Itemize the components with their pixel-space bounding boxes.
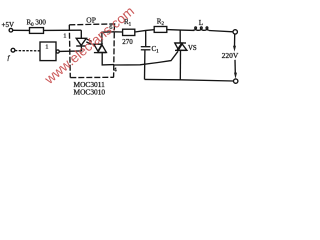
triac VS top lead (179, 30, 181, 43)
wire R0 to opto pin1 (44, 29, 82, 31)
wire R1 to node A (135, 30, 154, 32)
svg-text:1: 1 (63, 33, 66, 40)
wire input to gate (15, 50, 40, 52)
arrowhead upper (233, 46, 236, 52)
wire R2 to L (167, 29, 194, 32)
opto phototriac upper triangle (94, 44, 102, 51)
triac VS lower triangle (177, 43, 187, 50)
wire L to top terminal (209, 31, 233, 32)
capacitor C1 plates (141, 46, 151, 48)
wire +5V terminal to R0 (13, 29, 30, 31)
svg-text:+5V: +5V (2, 21, 15, 29)
svg-text:MOC3010: MOC3010 (74, 88, 106, 97)
triac VS top bar (175, 42, 186, 44)
LED cathode bar (76, 45, 86, 47)
arrowhead lower (234, 73, 237, 79)
bottom rail (145, 79, 234, 81)
terminal bottom right (234, 79, 238, 83)
triac VS bottom lead (179, 50, 181, 79)
resistor R0 (30, 28, 44, 34)
LED emission arrow 1 (87, 39, 91, 41)
opto triac bottom bar (94, 52, 107, 54)
terminal top right (233, 30, 237, 34)
inductor L (193, 27, 209, 31)
optocoupler OP dashed box (69, 24, 117, 78)
gate output bubble (56, 50, 59, 53)
capacitor C1 lead top (145, 30, 147, 46)
svg-text:220V: 220V (222, 51, 239, 60)
svg-text:OP: OP (86, 16, 96, 25)
LED D triangle (76, 38, 86, 45)
terminal input (11, 48, 15, 52)
resistor R1 (123, 29, 135, 35)
opto phototriac lower triangle (98, 45, 107, 53)
terminal +5V (9, 28, 13, 32)
svg-text:270: 270 (122, 38, 133, 46)
opto pin4 lead (102, 53, 114, 65)
wire pin6 to R1 (114, 31, 122, 33)
triac VS upper triangle (175, 43, 183, 50)
triac gate wire (114, 51, 178, 65)
220V arrow line upper (234, 34, 236, 46)
resistor R2 (154, 27, 167, 33)
gate U1 box (40, 42, 56, 61)
svg-text:L: L (199, 19, 203, 27)
220V arrow line lower (234, 60, 236, 73)
triac VS bottom bar (175, 49, 187, 51)
LED emission arrow 2 (86, 42, 90, 44)
LED lead anode (80, 30, 82, 38)
svg-text:VS: VS (188, 45, 197, 52)
opto triac top lead (102, 32, 114, 44)
LED lead cathode (80, 47, 82, 51)
wire gate output to opto pin2 (59, 50, 81, 53)
svg-text:1: 1 (45, 43, 48, 50)
capacitor C1 lead bottom (144, 50, 146, 79)
